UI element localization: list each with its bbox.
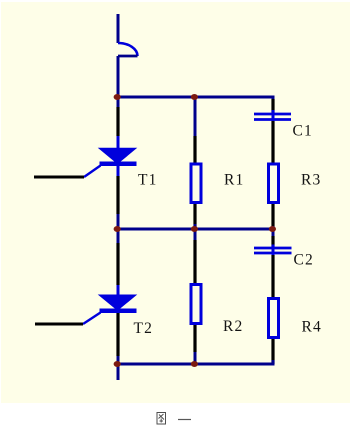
resistor R2 <box>191 285 201 324</box>
capacitor C2 <box>254 245 292 258</box>
R1 top pin <box>193 136 196 164</box>
junction: top rail / R1 <box>191 94 198 100</box>
C1 bottom pin / R3 top pin <box>271 121 274 164</box>
wire: mid rail down (left branch) <box>117 229 120 245</box>
wire: top rail <box>117 96 275 99</box>
junction: mid rail / R1-R2 <box>191 226 198 232</box>
wire: R1 to mid rail <box>194 224 197 229</box>
wire: T2 cathode to bottom rail <box>117 356 120 364</box>
junction: bottom rail / R2 <box>191 361 198 367</box>
junction: mid rail / T1-T2 <box>114 226 121 232</box>
wire: bottom rail <box>117 363 275 366</box>
wire: mid rail to C2 <box>272 229 275 240</box>
wire: top rail corner to C1 <box>272 97 275 103</box>
svg-text:R3: R3 <box>301 172 322 189</box>
T1 gate pin <box>34 176 84 179</box>
thyristor T1 <box>84 97 137 177</box>
wire: mid rail to R2 <box>194 229 197 242</box>
svg-text:R4: R4 <box>302 319 323 336</box>
R2 bottom pin <box>193 325 196 352</box>
R1 bottom pin <box>193 204 196 228</box>
svg-text:C2: C2 <box>294 252 315 269</box>
svg-text:C1: C1 <box>293 123 314 140</box>
svg-text:T1: T1 <box>138 172 158 189</box>
T1 cathode pin <box>116 176 119 214</box>
C2 top pin <box>271 236 274 248</box>
thyristor T2 <box>83 285 137 324</box>
T2 anode pin <box>116 243 119 285</box>
junction: top rail / T1 anode <box>114 94 121 100</box>
wire: R3 to mid rail <box>272 226 275 229</box>
svg-text:T2: T2 <box>134 320 154 337</box>
capacitor C1 <box>254 110 291 123</box>
wire: terminal to top rail <box>117 56 120 97</box>
T2 cathode pin <box>116 313 119 356</box>
svg-text:R2: R2 <box>223 318 244 335</box>
input terminal (plug) <box>118 14 138 56</box>
svg-text:R1: R1 <box>224 172 245 189</box>
resistor R1 <box>191 164 201 203</box>
resistor R3 <box>269 164 279 203</box>
wire: R2 to bottom rail <box>194 352 197 364</box>
wire: T1 cathode to mid rail <box>117 214 120 229</box>
C1 top pin <box>271 99 274 114</box>
junction: bottom rail / T2 cathode <box>114 361 121 367</box>
R4 bottom pin <box>271 339 274 364</box>
R2 top pin <box>193 240 196 284</box>
wire: mid rail <box>117 228 275 231</box>
resistor R4 <box>269 299 279 338</box>
junction: mid rail / R3-C2 <box>269 226 276 232</box>
R3 bottom pin <box>271 204 274 228</box>
wire: R4 to bottom rail corner <box>272 360 275 364</box>
wire: bottom stub below left junction <box>117 364 120 380</box>
C2 bottom pin / R4 top pin <box>271 255 274 299</box>
T2 gate pin <box>35 323 83 326</box>
wire: top rail to R1 <box>194 97 197 140</box>
caption: figure title 图一 <box>157 413 191 425</box>
